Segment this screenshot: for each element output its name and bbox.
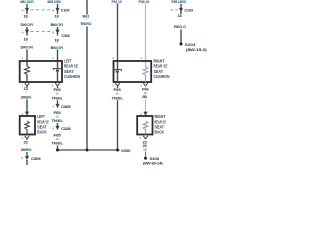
junction dot W4 bus / splice S306 <box>116 149 119 152</box>
wire W5 label Z2 bottom <box>143 139 148 144</box>
connector C103 label <box>184 7 193 12</box>
wire W2 label BK/OR second <box>51 45 64 50</box>
wire W2 segment to C328 <box>57 123 59 126</box>
svg-text:C103: C103 <box>184 7 193 12</box>
wire W2 label 18 <box>55 14 60 23</box>
svg-text:A: A <box>22 30 24 34</box>
svg-text:BK: BK <box>144 148 148 152</box>
ground bus wire <box>58 149 120 151</box>
wire W5 segment to splice S308 <box>145 151 147 158</box>
connector C302 arrow on W2 <box>52 30 59 35</box>
connector C328 label <box>61 126 72 131</box>
wire W2 label F65 <box>54 87 62 92</box>
wire W3 label TN/RD <box>80 21 92 26</box>
svg-text:C328: C328 <box>61 126 72 131</box>
wire W6 label RD/LG <box>174 24 186 29</box>
wire W2 label F65 third <box>54 132 62 137</box>
wire W5 label BK bottom <box>144 148 148 152</box>
wire W2 label 18 second <box>55 38 60 46</box>
wire W5 segment to bottom right box <box>145 99 147 112</box>
svg-text:C302: C302 <box>61 33 70 38</box>
wire W1 label 18 <box>24 14 29 23</box>
wire W2 label TN/BL second <box>52 118 64 123</box>
connector C103 arrow on W6 <box>179 8 183 12</box>
wire W2 label 18 <box>56 92 60 96</box>
svg-text:TN/BL: TN/BL <box>52 95 64 100</box>
pin below right box W4 <box>113 83 115 87</box>
right box: right rear seat cushion heater <box>114 61 152 82</box>
pin 3 above bottom left box <box>22 112 24 116</box>
wire W2 label TN/BL third <box>52 141 64 146</box>
svg-text:C309: C309 <box>31 156 42 161</box>
pin above right box W5 <box>141 56 143 60</box>
sensor element right box <box>114 69 121 82</box>
pin 2 below left box <box>22 83 24 87</box>
svg-text:BK/OR: BK/OR <box>51 45 64 50</box>
svg-text:RD/LG: RD/LG <box>174 24 186 29</box>
heater element left box <box>25 66 30 82</box>
bottom left box: left rear seat back heater <box>20 116 35 135</box>
svg-text:(8W-30-14): (8W-30-14) <box>143 160 163 165</box>
wire W2 segment to ground bus <box>57 145 59 150</box>
wire W3 lower segment to splice bus <box>86 27 88 151</box>
splice S308 dot <box>144 157 147 160</box>
right box label <box>154 58 170 79</box>
splice S306 label <box>121 148 131 153</box>
connector arrow W1 into bottom left box <box>25 112 29 116</box>
wire W6 upper segment <box>180 4 182 14</box>
svg-text:BACK: BACK <box>155 130 165 135</box>
heater element bottom left box <box>25 121 30 135</box>
pin above right box W4 <box>113 56 115 60</box>
svg-text:B: B <box>52 9 54 13</box>
junction dot W3 bus <box>86 149 89 152</box>
wire W5 label top <box>139 0 150 4</box>
wire W2 label 18 third <box>56 137 60 141</box>
svg-text:CUSHION: CUSHION <box>154 74 170 79</box>
svg-text:BK/OR: BK/OR <box>51 22 64 27</box>
svg-text:(8W-15-2): (8W-15-2) <box>186 47 208 52</box>
wire W1 label DK/OR <box>21 22 34 27</box>
wire W1 mid segment <box>26 27 28 36</box>
svg-text:20BK: 20BK <box>21 94 32 99</box>
wire W4 label TN/BL <box>112 95 124 100</box>
svg-text:S306: S306 <box>121 148 131 153</box>
wire W5 light segment top to right box <box>145 3 147 67</box>
pin 4 below left box W2 <box>52 83 54 87</box>
connector C365 arrow on W2 <box>53 104 60 109</box>
wire W2 label TN/BL <box>52 95 64 100</box>
wire W1 segment to C309 <box>26 152 28 156</box>
wire W5 label 18 <box>144 91 148 95</box>
wire W1 label Z2 bottom <box>24 140 29 148</box>
wire W2 label top <box>48 0 62 4</box>
wire W4 segment top to right box <box>117 3 119 70</box>
pin above bottom right box <box>140 112 142 116</box>
wire W6 segment to splice <box>180 30 182 45</box>
splice S204 reference <box>186 47 208 52</box>
pin 3 above left box <box>52 56 54 60</box>
wire W1 label 18 second <box>24 37 29 45</box>
splice S204 label <box>185 42 197 47</box>
connector C109 arrow on W2 <box>52 8 59 13</box>
svg-text:F35 18RD: F35 18RD <box>172 0 187 4</box>
splice S308 label <box>150 156 160 161</box>
svg-text:C109: C109 <box>61 7 70 12</box>
connector C302 arrow on W1 <box>22 30 30 35</box>
connector arrow W5 into bottom right box <box>143 112 147 116</box>
wire W1 segment to bottom box <box>26 99 28 112</box>
wire W1 upper segment <box>26 4 28 14</box>
svg-text:CUSHION: CUSHION <box>64 74 80 79</box>
wire W2 segment to C365 <box>57 100 59 104</box>
connector C109 label <box>61 7 70 12</box>
bottom right box: right rear seat back heater <box>137 116 152 135</box>
svg-text:P33 18: P33 18 <box>139 0 150 4</box>
connector C103 dashed line <box>171 9 178 11</box>
pin exit symbol W1 below left box <box>25 83 29 88</box>
wire W1 label 20BK bottom <box>21 147 32 152</box>
connector C365 label <box>61 104 72 109</box>
svg-text:TN/RD: TN/RD <box>80 21 92 26</box>
wire W1 label 20BK <box>21 94 32 99</box>
wire W2 segment into left box <box>57 50 59 69</box>
svg-text:2B: 2B <box>142 94 147 99</box>
svg-text:C365: C365 <box>61 104 72 109</box>
svg-text:20BK: 20BK <box>21 147 32 152</box>
connector C302 dashed line <box>31 31 53 33</box>
sensor element left box <box>53 68 61 82</box>
wire W3 label B61 <box>83 14 91 22</box>
left box label <box>64 58 80 79</box>
wire W2 mid segment <box>57 27 59 36</box>
splice S204 dot <box>180 43 183 46</box>
splice S308 reference <box>143 160 163 165</box>
pin exit symbol W5 below right box <box>143 83 147 88</box>
wire W5 label 20 bottom <box>143 143 148 148</box>
pin exit symbol W4 below right box <box>115 83 119 88</box>
wire W6 label 18 <box>178 13 183 22</box>
wire W2 label DK/OR <box>51 22 64 27</box>
pin exit symbol below bottom right box <box>143 136 147 139</box>
connector C109 arrow on W1 <box>22 8 30 13</box>
svg-text:M23 18BK: M23 18BK <box>48 0 62 4</box>
svg-text:TN/BL: TN/BL <box>52 118 64 123</box>
wire W6 label top <box>172 0 187 4</box>
svg-text:P32 18: P32 18 <box>112 0 123 4</box>
pin 2 below bottom left box <box>22 136 24 140</box>
connector C328 arrow on W2 <box>53 126 60 131</box>
pin 2 below bottom right box <box>140 136 142 140</box>
svg-text:M22 18OR: M22 18OR <box>21 0 34 4</box>
svg-text:DK/OR: DK/OR <box>21 22 34 27</box>
wire W4 label top <box>112 0 123 4</box>
bottom left box label <box>37 114 49 135</box>
pin 1 above left box <box>22 56 24 60</box>
svg-text:A: A <box>22 9 24 13</box>
left box: left rear seat cushion heater <box>20 61 62 82</box>
junction dot W2 bus <box>56 149 59 152</box>
wire W1 segment to bottom edge <box>26 160 28 165</box>
pin exit symbol W2 below left box <box>55 83 59 88</box>
wire W5 label P66 <box>142 87 150 92</box>
wire W1 label DK/OR second <box>21 44 34 49</box>
svg-text:B: B <box>52 30 54 34</box>
connector C302 label <box>61 33 70 38</box>
svg-text:TN/BL: TN/BL <box>52 141 64 146</box>
bottom right box label <box>155 114 167 135</box>
heater element bottom right box <box>143 121 148 135</box>
wire W4 label 18 <box>116 92 120 96</box>
connector C109 dashed line <box>31 9 53 11</box>
heater element right box <box>143 67 148 83</box>
wire W2 label 18 second <box>56 114 60 118</box>
wire W4 label F65 <box>114 87 122 92</box>
wire W1 segment into left box <box>26 50 28 67</box>
pin exit symbol below bottom left box <box>25 136 29 140</box>
pin below right box W5 <box>141 83 143 87</box>
wire W1 label top <box>21 0 34 4</box>
connector C309 arrow on W1 <box>25 156 29 160</box>
wire W4 segment to ground bus <box>117 100 119 150</box>
wire W5 label 20 <box>142 94 147 99</box>
wire W1 label Z2 <box>24 86 29 94</box>
wire W2 upper segment <box>57 4 59 14</box>
connector C309 label <box>31 156 42 161</box>
svg-text:TN/BL: TN/BL <box>112 95 124 100</box>
connector C309 dashed stub <box>21 157 24 159</box>
svg-text:DK/OR: DK/OR <box>21 44 34 49</box>
wire W3 fused B+ <box>86 0 88 15</box>
svg-text:BACK: BACK <box>37 130 47 135</box>
wire W2 label F65 second <box>54 110 62 115</box>
